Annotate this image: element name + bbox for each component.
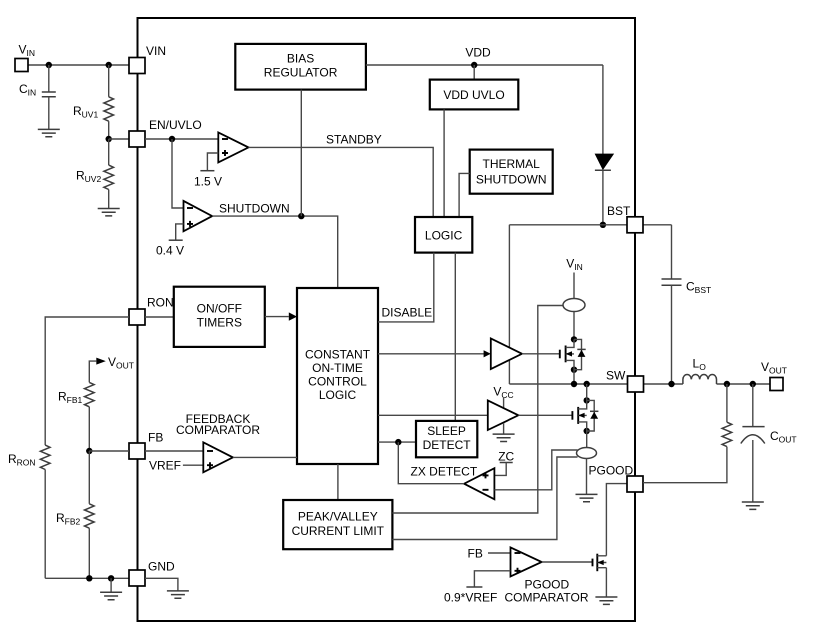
svg-text:VOUT: VOUT [108, 355, 134, 371]
capacitor COUT polarized [752, 384, 754, 427]
wire BIAS to shutdown node [300, 90, 302, 217]
svg-text:VIN: VIN [566, 257, 583, 273]
svg-text:ZC: ZC [498, 450, 514, 464]
wire FB node to pin [89, 450, 129, 452]
source 0.9*VREF bar [466, 586, 482, 588]
current sense ellipse high side [563, 299, 585, 312]
pin PGOOD [627, 476, 643, 492]
svg-text:VDD UVLO: VDD UVLO [443, 88, 504, 102]
node BST junction [600, 222, 606, 228]
wire SHUTDOWN [212, 216, 338, 288]
wire RON external [45, 317, 129, 445]
ground internal [167, 591, 189, 598]
node EN divider junction [106, 136, 112, 142]
wire Q3 source to ground [605, 568, 607, 597]
wire VREF to comparator [183, 464, 203, 466]
ground below low-side sense [576, 494, 598, 501]
svg-text:REGULATOR: REGULATOR [264, 66, 338, 80]
pin EN/UVLO [129, 131, 145, 147]
op-amp U4 feedback comparator [203, 442, 233, 472]
svg-text:BIAS: BIAS [287, 52, 314, 66]
wire Q2 drain to SW [586, 384, 588, 400]
wire COT to sleep detect [378, 441, 416, 443]
wire 0.9VREF to plus input [474, 571, 510, 587]
source ZC bar [500, 462, 513, 464]
svg-text:DETECT: DETECT [423, 438, 472, 452]
wire EN branch down to shutdown comparator [172, 139, 184, 208]
svg-text:0.9*VREF: 0.9*VREF [444, 591, 497, 605]
wire VDD to UVLO block [473, 65, 475, 80]
svg-text:CURRENT LIMIT: CURRENT LIMIT [292, 524, 385, 538]
block CONSTANT ON-TIME CONTROL LOGIC [297, 288, 378, 464]
wire VIN stub to current sense [573, 273, 575, 299]
svg-text:PEAK/VALLEY: PEAK/VALLEY [298, 510, 378, 524]
pin BST [627, 217, 643, 233]
wire STANDBY [249, 147, 434, 217]
ground below CIN [38, 129, 60, 136]
wire FB to pgood comparator [488, 552, 511, 554]
svg-text:STANDBY: STANDBY [326, 133, 382, 147]
wire COT to peak valley [337, 464, 339, 500]
svg-text:CIN: CIN [19, 82, 36, 98]
current sense ellipse low side [577, 448, 597, 459]
node LO output junction [724, 381, 730, 387]
pin FB [129, 443, 145, 459]
resistor RFB2 [88, 451, 90, 504]
wire GND internal [145, 578, 178, 591]
wire driver to gate Q1 [522, 353, 560, 355]
terminal VOUT square [770, 378, 783, 391]
wire ZX output to sleep node [398, 442, 464, 484]
pin RON [129, 309, 145, 325]
svg-text:LOGIC: LOGIC [319, 388, 357, 402]
source 0.4V bar [169, 239, 183, 241]
wire DISABLE [378, 253, 434, 322]
node FB junction [86, 448, 92, 454]
svg-text:RUV2: RUV2 [76, 169, 101, 185]
node RUV1 tap [106, 62, 112, 68]
wire RON pin to timers [145, 316, 174, 318]
driver U5 high side [491, 339, 522, 370]
node SW cbst junction [668, 381, 674, 387]
wire peak limit sense [392, 306, 563, 514]
wire Q3 drain to PGOOD [606, 484, 627, 556]
resistor RRON [40, 445, 50, 469]
block PEAK/VALLEY CURRENT LIMIT [283, 500, 392, 549]
wire BST rail [509, 224, 671, 226]
svg-text:SHUTDOWN: SHUTDOWN [476, 173, 547, 187]
svg-text:VREF: VREF [149, 459, 181, 473]
wire timers to COT with arrow [265, 316, 289, 318]
svg-text:GND: GND [148, 560, 175, 574]
svg-text:SW: SW [606, 369, 626, 383]
svg-text:LOGIC: LOGIC [425, 229, 463, 243]
op-amp U2 shutdown comparator [184, 201, 213, 231]
wire Q2 source to sense [586, 431, 588, 448]
source 1.5V bar [200, 170, 214, 172]
svg-text:RFB2: RFB2 [56, 511, 81, 527]
svg-text:EN/UVLO: EN/UVLO [149, 118, 202, 132]
svg-text:DISABLE: DISABLE [382, 306, 433, 320]
node ground symbol tap [108, 575, 114, 581]
wire driver ground stub [503, 423, 505, 434]
svg-text:RUV1: RUV1 [73, 104, 98, 120]
svg-text:RFB1: RFB1 [58, 390, 83, 406]
resistor RUV2 [108, 139, 110, 165]
pin GND [129, 570, 145, 586]
op-amp U1 EN comparator [218, 132, 248, 162]
transistor Q3 PGOOD pulldown [592, 559, 594, 567]
ground external GND [110, 578, 112, 592]
svg-text:SHUTDOWN: SHUTDOWN [219, 202, 290, 216]
wire divider to EN pin [109, 138, 129, 140]
svg-text:RON: RON [147, 296, 174, 310]
wire VDD UVLO to LOGIC [443, 109, 445, 217]
svg-text:ON/OFF: ON/OFF [197, 302, 242, 316]
wire FB to comparator [145, 450, 203, 452]
wire comparator to Q3 gate [542, 561, 593, 563]
svg-text:RRON: RRON [8, 452, 36, 468]
node SW q1 [571, 381, 577, 387]
svg-text:CBST: CBST [686, 280, 711, 296]
transistor Q2 low-side NMOS [584, 397, 590, 403]
IC boundary box [138, 18, 636, 621]
block ON/OFF TIMERS [174, 287, 265, 347]
svg-text:BST: BST [607, 204, 631, 218]
wire VDD [366, 64, 603, 66]
node SW q2 [584, 381, 590, 387]
svg-text:PGOOD: PGOOD [589, 464, 634, 478]
wire THERMAL SHUTDOWN to LOGIC [459, 173, 470, 217]
wire EN pin to comparator [145, 138, 218, 140]
wire ZC to zx comparator plus [494, 463, 506, 476]
capacitor CBST [671, 225, 673, 279]
svg-text:COUT: COUT [770, 429, 797, 445]
driver U6 low side [488, 400, 519, 430]
wire 1.5V to plus input [207, 153, 218, 171]
svg-text:SLEEP: SLEEP [427, 424, 466, 438]
op-amp U3 ZX detect comparator [464, 468, 494, 499]
wire 0.4V to plus input [176, 224, 184, 240]
svg-text:COMPARATOR: COMPARATOR [505, 591, 589, 605]
wire ground rail [45, 577, 129, 579]
terminal VIN square [15, 59, 28, 72]
pin VIN [129, 58, 145, 74]
svg-text:FB: FB [468, 547, 483, 561]
resistor RUV1 [108, 65, 110, 97]
node shutdown bias junction [298, 213, 304, 219]
svg-text:VDD: VDD [465, 46, 491, 60]
wire Q1 source to SW [573, 370, 575, 384]
svg-text:CONSTANT: CONSTANT [305, 348, 371, 362]
node VDD [471, 62, 477, 68]
wire sense to drain [573, 312, 575, 340]
inductor LO [683, 374, 717, 384]
svg-text:1.5 V: 1.5 V [194, 175, 222, 189]
block SLEEP DETECT [416, 421, 477, 457]
svg-text:TIMERS: TIMERS [197, 316, 242, 330]
wire VCC to driver [503, 398, 505, 409]
node CIN tap [46, 62, 52, 68]
svg-text:FB: FB [148, 431, 163, 445]
wire VOUT arrow [89, 361, 96, 382]
op-amp U7 PGOOD comparator [511, 547, 542, 576]
wire COT to high-side driver with arrow [378, 353, 487, 355]
svg-text:ZX DETECT: ZX DETECT [411, 465, 478, 479]
svg-text:LO: LO [693, 357, 707, 373]
svg-text:VCC: VCC [493, 385, 513, 401]
wire diode to BST [602, 170, 604, 225]
ground below Q3 [595, 597, 617, 604]
ground below RUV2 [98, 209, 120, 216]
svg-text:COMPARATOR: COMPARATOR [176, 423, 260, 437]
svg-text:ON-TIME: ON-TIME [312, 361, 363, 375]
svg-text:VIN: VIN [146, 44, 166, 58]
wire sense to ground [586, 459, 588, 495]
wire BST to high-side driver rail [508, 225, 510, 384]
svg-text:THERMAL: THERMAL [483, 157, 541, 171]
wire ZC sense [494, 450, 577, 490]
ground below low-side driver [493, 434, 515, 441]
capacitor CIN [48, 65, 50, 92]
wire valley limit sense [392, 457, 577, 540]
wire VDD to diode [602, 65, 604, 154]
svg-text:0.4 V: 0.4 V [156, 244, 184, 258]
node sleep zx junction [395, 439, 401, 445]
wire COT to low-side driver [378, 414, 488, 416]
node RFB2 ground [86, 575, 92, 581]
block LOGIC [415, 217, 472, 253]
svg-text:PGOOD: PGOOD [525, 578, 570, 592]
block BIAS REGULATOR [235, 44, 366, 90]
diode D1 [595, 154, 613, 169]
ground below COUT [742, 502, 764, 509]
wire feedback comparator to COT [233, 456, 297, 458]
svg-text:VIN: VIN [19, 43, 36, 59]
resistor RFB1 [85, 382, 95, 406]
pin SW [628, 376, 644, 392]
transistor Q1 high-side NMOS [571, 336, 577, 342]
resistor RPG pgood pullup [726, 384, 728, 422]
wire driver to gate Q2 [518, 414, 572, 416]
node COUT junction [750, 381, 756, 387]
svg-text:CONTROL: CONTROL [308, 375, 367, 389]
wire LOGIC to sleep detect [454, 253, 456, 421]
node EN branch [169, 136, 175, 142]
wire VIN input [28, 64, 129, 66]
wire SW rail [509, 383, 770, 385]
block VDD UVLO [430, 80, 519, 110]
block THERMAL SHUTDOWN [470, 150, 553, 194]
svg-text:VOUT: VOUT [761, 360, 787, 376]
